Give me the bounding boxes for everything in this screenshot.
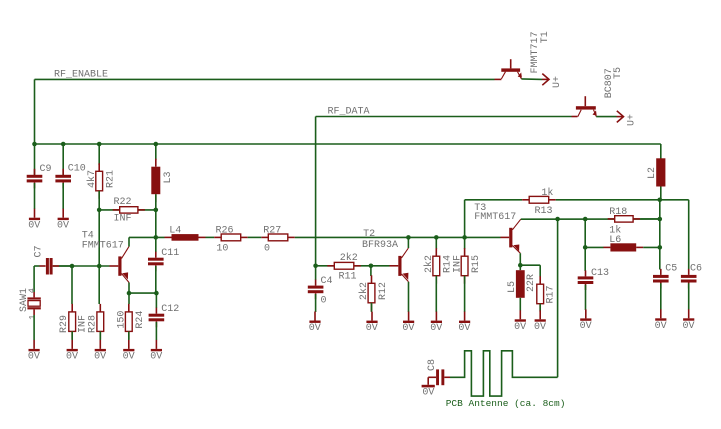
svg-text:4k7: 4k7 [86, 170, 98, 188]
resistor R29 [71, 304, 73, 312]
ground under R15 [464, 312, 466, 321]
svg-text:PCB Antenne (ca. 8cm): PCB Antenne (ca. 8cm) [446, 398, 566, 409]
wire T4 base pin stub [110, 265, 119, 267]
wire C13 to ground [585, 285, 587, 310]
wire R22 node down to T4 base node [98, 210, 100, 266]
resistor R15 [464, 248, 466, 256]
capacitor C4 [315, 280, 317, 286]
svg-text:T2: T2 [363, 229, 375, 240]
junction T2 collector on rail2 [406, 235, 411, 240]
wire C7 left down to SAW1 [33, 266, 35, 292]
svg-text:FMMT617: FMMT617 [82, 241, 124, 252]
svg-text:0: 0 [264, 243, 270, 254]
junction T3 row at C13 column [583, 217, 588, 222]
transistor T2 base bar [398, 256, 401, 276]
svg-text:2k2: 2k2 [423, 255, 435, 273]
svg-text:C12: C12 [161, 304, 179, 315]
wire emitter node down to C12 [155, 293, 157, 308]
svg-text:R29: R29 [59, 315, 70, 333]
ground at C8 [422, 385, 435, 388]
svg-text:0V: 0V [580, 321, 592, 332]
wire rail2 from T4 collector to L4 node [129, 236, 165, 238]
svg-text:22R: 22R [526, 274, 537, 292]
wire T4 emitter down [128, 283, 130, 294]
junction RF_DATA at C4/R11 node [313, 264, 318, 269]
svg-text:R15: R15 [471, 255, 482, 273]
wire base row down to R29 [71, 266, 73, 304]
wire R21 to R22 node [98, 191, 100, 210]
ground under R17 [539, 310, 541, 319]
svg-text:150: 150 [117, 311, 128, 329]
wire RF_DATA net: horizontal run [316, 116, 572, 118]
svg-text:0V: 0V [366, 323, 378, 334]
transistor T4 collector diagonal [122, 247, 130, 259]
junction rail at L3 [154, 142, 159, 147]
capacitor C7 (vertical plates) [34, 265, 39, 267]
wire L2 to R13 node [660, 187, 662, 200]
transistor T5 collector stub up [584, 96, 586, 106]
svg-text:0V: 0V [150, 352, 162, 363]
wire antenna meander [450, 351, 558, 396]
transistor T1 collector stub up [510, 59, 512, 68]
resistor R21 [98, 163, 100, 171]
wire L6 row left [585, 246, 603, 248]
wire T2 base pin stub [390, 265, 399, 267]
wire C11 to emitter node [155, 266, 157, 293]
transistor T2 emitter diagonal with arrow [402, 274, 409, 282]
wire rail2 to R15 [464, 237, 466, 249]
inductor L4 [165, 236, 172, 238]
svg-text:SAW1: SAW1 [19, 288, 30, 312]
ground under C13 [585, 309, 587, 318]
svg-text:0V: 0V [309, 323, 321, 334]
svg-text:C4: C4 [321, 276, 333, 287]
supply arrow V+ at T5 [617, 116, 624, 118]
ground under C5 [660, 309, 662, 318]
wire R27 to T3 base (rail2 right part) [295, 236, 501, 238]
wire R13 row left segment [465, 199, 523, 201]
supply arrow V+ at T1 [542, 78, 549, 80]
transistor T5 emitter diagonal with arrow [594, 110, 597, 117]
wire node to R17 [520, 264, 540, 266]
svg-text:0V: 0V [655, 321, 667, 332]
svg-text:L2: L2 [647, 167, 658, 179]
wire R14 to ground [435, 276, 437, 312]
junction L3/R22 node [154, 208, 159, 213]
svg-text:R18: R18 [609, 207, 627, 218]
resistor R13 [522, 199, 529, 201]
wire T3 collector row [521, 218, 660, 220]
svg-text:C6: C6 [690, 264, 702, 275]
junction L6 node [658, 245, 663, 250]
wire emitter node down to R24 [128, 293, 130, 304]
ground under C10 [62, 209, 64, 218]
wire T3 base pin stub [501, 236, 510, 238]
junction L5/R17 node [518, 263, 523, 268]
svg-text:U+: U+ [626, 114, 637, 126]
wire node to C4 [315, 266, 317, 280]
resistor R18 [608, 218, 615, 220]
wire T4 base row from C7 [53, 265, 110, 267]
junction T3 collector row at antenna column [555, 217, 560, 222]
ground under R12 [371, 312, 373, 321]
capacitor C11 [155, 252, 157, 258]
svg-text:0V: 0V [458, 323, 470, 334]
wire L4 node down to C11 [155, 237, 157, 252]
wire C6 branch vertical [688, 200, 690, 270]
transistor T3 emitter diagonal with arrow [512, 246, 520, 254]
capacitor C8 (vertical plates) [436, 369, 439, 385]
wire base row down to R28 [98, 266, 100, 304]
inductor L2 [660, 158, 662, 161]
svg-text:C9: C9 [40, 164, 52, 175]
junction rail at R21 [97, 142, 102, 147]
svg-text:2k2: 2k2 [340, 252, 358, 264]
wire V+ collector rail (top horizontal) [35, 143, 661, 145]
svg-text:R27: R27 [263, 225, 281, 236]
wire C13 column upper [584, 219, 586, 247]
wire R18 to L2 column [640, 218, 660, 220]
wire T1 base pin stub [495, 78, 502, 80]
svg-text:0V: 0V [28, 220, 40, 231]
junction L2/R13/C6 node [658, 198, 663, 203]
resistor R17 [539, 276, 541, 284]
svg-text:BFR93A: BFR93A [362, 240, 398, 251]
capacitor C6 [688, 269, 690, 275]
transistor T1 base bar [501, 68, 520, 71]
junction base row at R28 [97, 264, 102, 269]
wire R12 to ground [371, 303, 373, 312]
wire R24 to ground [128, 331, 130, 340]
svg-text:0V: 0V [534, 322, 546, 333]
ground under T2 emitter [408, 312, 410, 321]
wire RF_ENABLE net: horizontal run [35, 78, 495, 80]
wire C12 to ground [155, 322, 157, 340]
svg-text:T1: T1 [540, 31, 551, 43]
svg-text:C5: C5 [665, 264, 677, 275]
wire R11 row [316, 265, 371, 267]
capacitor C13 [585, 270, 587, 276]
svg-text:RF_DATA: RF_DATA [328, 107, 370, 118]
svg-text:RF_ENABLE: RF_ENABLE [54, 70, 108, 81]
resistor R27 [261, 236, 268, 238]
wire R22 row [99, 209, 156, 211]
resistor R11 [327, 265, 334, 267]
wire C6 branch horizontal [660, 199, 689, 201]
ground under L5 [519, 310, 521, 319]
junction rail at C10 [61, 142, 66, 147]
wire L3 node down to L4 node [155, 210, 157, 238]
transistor T4 emitter diagonal with arrow [122, 274, 130, 283]
transistor T2 collector diagonal [402, 248, 409, 258]
junction rail/RF_ENABLE at C9 column [32, 142, 37, 147]
capacitor C10 [62, 169, 64, 175]
wire T1 emitter to V+ arrow [521, 78, 542, 81]
wire T3 emitter down to L5 node [519, 253, 521, 265]
resistor R14 [435, 248, 437, 256]
junction emitter node right [154, 291, 159, 296]
svg-text:10: 10 [216, 243, 228, 254]
svg-text:L6: L6 [609, 235, 621, 246]
wire C7 right to base row [63, 265, 72, 267]
junction L6 row at C13 column [583, 245, 588, 250]
svg-text:R12: R12 [378, 282, 389, 300]
SAW filter SAW1 [33, 292, 35, 297]
svg-text:0V: 0V [422, 388, 434, 399]
wire antenna vertical [557, 219, 559, 377]
wire RF_ENABLE net: vertical drop to V+ rail [34, 79, 36, 144]
svg-text:INF: INF [452, 255, 463, 273]
svg-text:R22: R22 [114, 197, 132, 208]
svg-text:L4: L4 [169, 225, 181, 236]
junction L4 node [154, 235, 159, 240]
svg-text:1k: 1k [541, 187, 553, 199]
resistor R28 [99, 304, 101, 312]
svg-text:0V: 0V [683, 321, 695, 332]
wire C8 ground link [427, 377, 429, 385]
wire L5 to ground [519, 298, 521, 311]
wire C9 to ground [34, 183, 36, 209]
wire L4 to R26 [206, 236, 215, 238]
wire node down to R18 node [659, 200, 661, 219]
svg-text:2k2: 2k2 [358, 282, 370, 300]
transistor T3 collector diagonal [512, 219, 520, 230]
wire node down to L6 node [659, 219, 661, 247]
svg-text:0V: 0V [66, 352, 78, 363]
wire C10 to ground [62, 183, 64, 209]
wire T5 base pin stub [572, 116, 578, 118]
wire R29 to ground [71, 331, 73, 340]
svg-text:R17: R17 [546, 285, 557, 303]
transistor T5 base lead diagonal [578, 110, 581, 117]
wire T2 collector to rail2 [407, 237, 409, 248]
ground under C12 [155, 340, 157, 349]
svg-text:L5: L5 [507, 281, 518, 293]
inductor L3 [155, 159, 157, 167]
svg-text:0: 0 [321, 296, 327, 307]
ground under C6 [688, 309, 690, 318]
wire R11 node to T2 base [371, 265, 390, 267]
wire SAW1 to ground [33, 315, 35, 340]
svg-text:1: 1 [27, 315, 37, 320]
transistor T1 base lead diagonal [501, 72, 505, 79]
ground under R28 [99, 340, 101, 349]
transistor T4 base bar [118, 256, 121, 275]
wire node down to C5 [659, 247, 661, 269]
svg-text:0V: 0V [57, 220, 69, 231]
wire C6 to ground [688, 283, 690, 309]
wire R28 to ground [99, 331, 101, 340]
wire C5 to ground [660, 283, 662, 309]
svg-text:0V: 0V [123, 352, 135, 363]
svg-text:R24: R24 [135, 311, 146, 329]
svg-text:C11: C11 [161, 248, 179, 259]
svg-text:T5: T5 [613, 67, 624, 79]
wire L3 to R22 node [155, 194, 157, 210]
svg-text:U+: U+ [552, 76, 563, 88]
svg-text:0V: 0V [28, 352, 40, 363]
resistor R26 [214, 236, 221, 238]
ground under R24 [128, 340, 130, 349]
resistor R12 [371, 275, 373, 283]
resistor R22 [113, 209, 120, 211]
wire rail to L3 [155, 144, 157, 160]
svg-text:R21: R21 [106, 170, 117, 188]
wire R17 to ground [539, 304, 541, 311]
inductor L5 [519, 265, 521, 270]
svg-text:FMMT617: FMMT617 [474, 212, 516, 223]
ground under SAW1 [33, 340, 35, 349]
svg-text:R13: R13 [535, 206, 553, 217]
wire R26 to R27 [248, 236, 262, 238]
svg-text:0V: 0V [430, 323, 442, 334]
wire rail corner down to L2 [660, 144, 662, 159]
junction emitter node left [127, 291, 132, 296]
wire C13 column to cap [584, 247, 586, 271]
ground under C4 [314, 312, 316, 321]
wire RF_DATA net: vertical drop to C4/R11 node [315, 117, 317, 266]
transistor T3 base bar [509, 228, 512, 248]
wire R15 to ground [464, 276, 466, 312]
wire node down to R12 [370, 266, 372, 276]
ground under R29 [71, 340, 73, 349]
wire R15 node up to R13 row [464, 200, 466, 238]
svg-text:R11: R11 [339, 271, 357, 282]
wire L6 to L2 column [643, 246, 660, 248]
svg-text:L3: L3 [163, 171, 174, 183]
svg-text:C13: C13 [591, 268, 609, 279]
resistor R24 [128, 304, 130, 312]
wire C9 column upper [34, 144, 36, 175]
wire T5 emitter to V+ arrow [596, 116, 616, 118]
wire emitter node horizontal [129, 292, 156, 294]
junction R18 node [658, 217, 663, 222]
wire rail2 to R14 [435, 237, 437, 249]
svg-text:0V: 0V [514, 322, 526, 333]
inductor L6 [603, 246, 610, 248]
svg-text:C10: C10 [68, 163, 86, 174]
capacitor C9 [34, 169, 36, 175]
wire rail to R21 [98, 144, 100, 165]
junction rail2 at R14 [434, 235, 439, 240]
junction R21/R22 node [97, 208, 102, 213]
transistor T5 base bar [576, 106, 596, 109]
svg-text:R26: R26 [216, 225, 234, 236]
ground under R14 [435, 312, 437, 321]
wire C10 column upper [62, 144, 64, 175]
junction R11/R12 node [369, 264, 374, 269]
svg-text:C8: C8 [427, 359, 438, 371]
svg-text:C7: C7 [33, 245, 44, 257]
svg-text:INF: INF [114, 214, 132, 225]
junction rail2 at R15 [462, 235, 467, 240]
capacitor C5 [660, 269, 662, 275]
junction base row at R29 [70, 264, 75, 269]
ground under C9 [34, 209, 36, 218]
svg-text:0V: 0V [402, 323, 414, 334]
capacitor C12 [155, 308, 157, 314]
wire R13 row right segment [556, 199, 660, 201]
transistor T1 emitter diagonal with arrow [518, 72, 522, 79]
svg-text:0V: 0V [94, 352, 106, 363]
wire T4 collector up to rail2 [128, 237, 130, 246]
wire C4 to ground [315, 294, 317, 312]
wire T2 emitter to ground [408, 282, 410, 312]
